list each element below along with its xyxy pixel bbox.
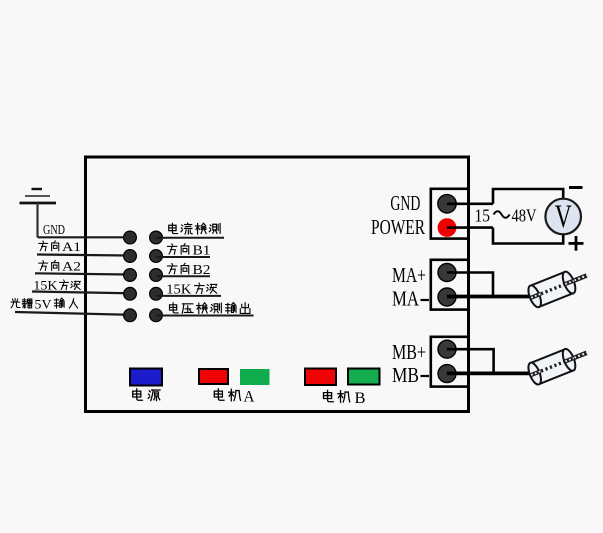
label 方向A2 xyxy=(39,261,48,271)
svg-text:15K: 15K xyxy=(166,281,191,296)
wire underline 电流检测 xyxy=(156,237,224,239)
svg-text:MA: MA xyxy=(392,287,420,311)
wire ground stem xyxy=(36,203,38,237)
wire GND to pin row1 xyxy=(38,236,131,238)
pin header col1 row4 xyxy=(124,287,137,300)
wire 方向A2 to pin row3 xyxy=(35,273,130,274)
motor M_A xyxy=(526,265,591,309)
terminal GND xyxy=(438,195,456,213)
label minus xyxy=(569,186,583,189)
label 电机A xyxy=(214,389,224,400)
wire underline 电压检测输出 xyxy=(156,315,254,317)
connector J1 box (GND/POWER) xyxy=(431,189,469,239)
pin header col2 row5 xyxy=(150,309,163,322)
svg-text:MB: MB xyxy=(392,363,419,387)
label 方向A1 xyxy=(39,241,48,251)
board outline xyxy=(86,157,469,412)
wire 方向A1 to pin row2 xyxy=(37,255,130,256)
label 光耦5V输入 xyxy=(11,299,20,308)
terminal MA+ xyxy=(438,264,456,282)
svg-text:5V: 5V xyxy=(35,297,53,312)
label 电流检测 xyxy=(169,223,178,233)
svg-text:B: B xyxy=(355,390,366,407)
svg-text:15: 15 xyxy=(475,205,491,225)
svg-text:48V: 48V xyxy=(512,205,537,225)
svg-text:B1: B1 xyxy=(193,243,211,258)
motor M_B xyxy=(526,342,591,386)
svg-text:GND: GND xyxy=(43,223,65,238)
svg-text:A2: A2 xyxy=(62,259,81,274)
wire MB+ jog xyxy=(447,349,494,373)
LED power (blue) xyxy=(130,369,162,386)
terminal POWER xyxy=(438,218,457,237)
pin header col1 row3 xyxy=(124,269,137,282)
LED motorA green xyxy=(240,369,270,385)
wire GND to supply xyxy=(447,203,493,206)
pin header col2 row4 xyxy=(150,287,163,300)
LED motorB red xyxy=(305,369,336,386)
pin header col2 row2 xyxy=(150,250,163,263)
LED motorB green xyxy=(348,369,380,385)
label 方向B1 xyxy=(167,244,176,254)
label plus xyxy=(569,236,584,251)
svg-text:V: V xyxy=(555,199,572,235)
wire 15K方波 to pin row4 xyxy=(32,292,130,294)
svg-text:15K: 15K xyxy=(33,278,58,293)
svg-text:MB+: MB+ xyxy=(392,340,426,364)
svg-text:POWER: POWER xyxy=(371,215,425,239)
svg-text:MA+: MA+ xyxy=(392,263,426,287)
pin header col1 row5 xyxy=(124,309,137,322)
svg-text:GND: GND xyxy=(390,191,420,215)
wire MB- to motor B xyxy=(447,371,531,375)
wire underline 15K方波 xyxy=(156,295,221,297)
wire MA+ jog xyxy=(447,273,493,297)
connector J2 box (MA) xyxy=(431,260,469,310)
LED motorA red xyxy=(199,369,228,384)
pin header col1 row1 xyxy=(124,231,137,244)
wire supply top xyxy=(493,189,563,204)
wire 光耦5V输入 to pin row5 xyxy=(15,312,130,315)
wire POWER to supply xyxy=(447,226,493,229)
wire underline 方向B1 xyxy=(156,256,210,258)
pin header col1 row2 xyxy=(124,250,137,263)
label 电机B xyxy=(324,390,334,401)
svg-text:A: A xyxy=(244,388,255,405)
label 电压检测输出 xyxy=(170,303,179,313)
label 方向B2 xyxy=(167,263,176,273)
pin header col2 row3 xyxy=(150,269,163,282)
terminal MB+ xyxy=(438,340,456,358)
svg-text:B2: B2 xyxy=(193,262,211,277)
terminal MB- xyxy=(438,365,456,383)
wire MA- to motor A xyxy=(447,295,531,299)
pin header col2 row1 xyxy=(150,231,163,244)
voltmeter V1 xyxy=(545,199,581,235)
wire underline 方向B2 xyxy=(156,275,210,277)
svg-text:A1: A1 xyxy=(62,239,81,254)
connector J3 box (MB) xyxy=(431,337,469,387)
ground xyxy=(20,189,57,203)
label 电源 xyxy=(133,389,143,400)
terminal MA- xyxy=(438,288,456,306)
wire supply bottom xyxy=(493,228,563,244)
